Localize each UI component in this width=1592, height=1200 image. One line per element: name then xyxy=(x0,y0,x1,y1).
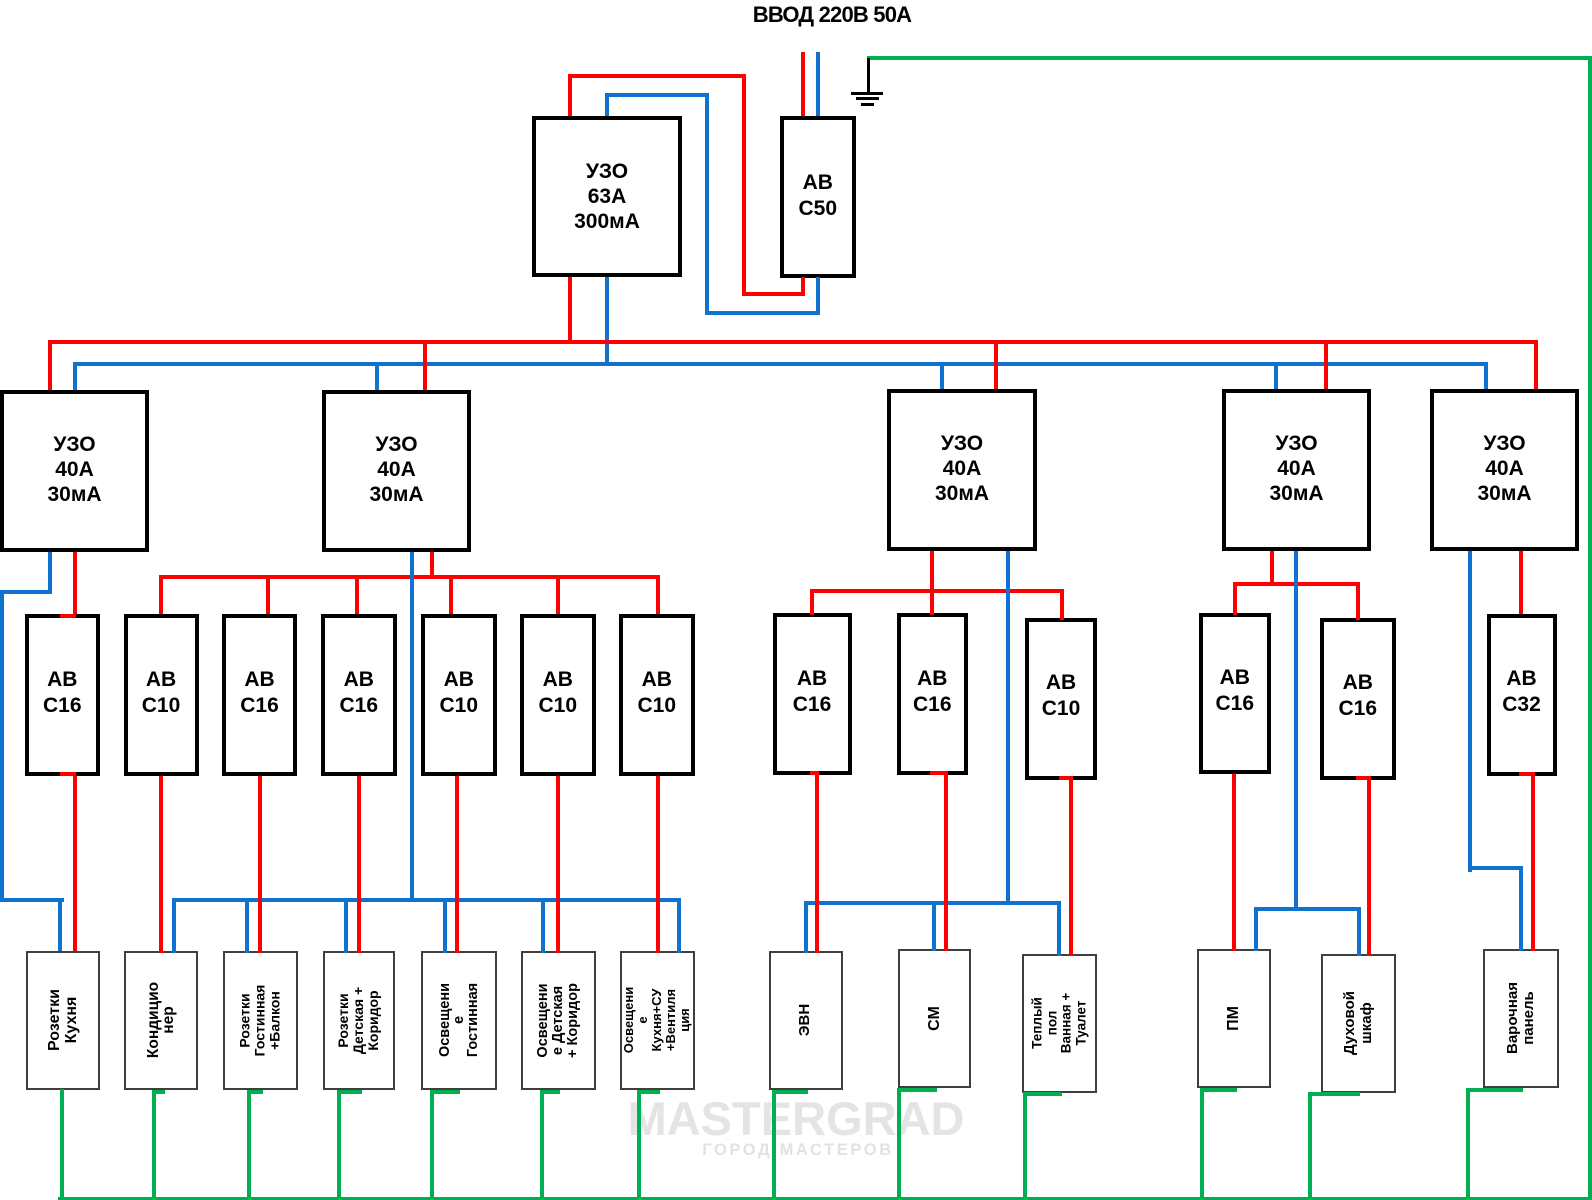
wire N drop to load10 xyxy=(0,0,1,1)
load2 Кондиционер xyxy=(124,951,198,1090)
wire PE bottom bus (green) xyxy=(0,0,1,1)
wire drop to АВ11 xyxy=(0,0,1,1)
wire АВ8 out L to load8 xyxy=(0,0,1,1)
load5 Освещение Гостинная xyxy=(421,951,497,1090)
wire drop to АВ9 xyxy=(0,0,1,1)
wire PE load5 xyxy=(0,0,1,1)
wire PE load12 xyxy=(0,0,1,1)
wire group3 phase distribution bus (red) xyxy=(0,0,1,1)
load1 Розетки Кухня xyxy=(26,951,101,1090)
wire drop to АВ12 xyxy=(0,0,1,1)
wire УЗО 63А out N to blue bus xyxy=(0,0,1,1)
wire УЗО4 N feed to group4 blue bus xyxy=(0,0,1,1)
wire L from АВ С50 out to УЗО 63А in (red) xyxy=(0,0,1,1)
load8 ЭВН xyxy=(769,951,843,1090)
wire drop N to УЗО5 xyxy=(0,0,1,1)
breaker АВ11 C16 xyxy=(1199,613,1272,774)
wire УЗО1 L to АВ1 xyxy=(0,0,1,1)
wire N drop to load2 xyxy=(0,0,1,1)
wire PE load3 xyxy=(0,0,1,1)
wire drop L to УЗО2 xyxy=(0,0,1,1)
breaker АВ13 C32 xyxy=(1487,614,1557,776)
load6 Освещение Детская + Коридор xyxy=(521,951,596,1090)
breaker АВ9 C16 xyxy=(897,613,968,775)
breaker АВ5 C10 xyxy=(421,614,497,776)
wire АВ10 out L to load10 xyxy=(0,0,1,1)
wire N drop to load4 xyxy=(0,0,1,1)
wire PE load4 xyxy=(0,0,1,1)
wire drop to АВ6 xyxy=(0,0,1,1)
wire УЗО1 N to load1 xyxy=(0,0,1,1)
wire АВ7 out L to load7 xyxy=(0,0,1,1)
wire УЗО3 N feed to group3 blue bus xyxy=(0,0,1,1)
breaker АВ4 C16 xyxy=(321,614,397,776)
wire group2 phase distribution bus (red) xyxy=(0,0,1,1)
wire main neutral bus (blue) xyxy=(0,0,1,1)
RCD УЗО5 40А 30мА xyxy=(1430,389,1579,551)
wire PE load1 xyxy=(0,0,1,1)
breaker АВ10 C10 xyxy=(1025,618,1097,780)
wire input neutral N (blue) xyxy=(0,0,1,1)
watermark MASTERGRAD xyxy=(0,1092,1592,1146)
wire УЗО 63А out L to red bus xyxy=(0,0,1,1)
wire PE load8 xyxy=(0,0,1,1)
wire N drop to load7 xyxy=(0,0,1,1)
wire group4 phase distribution bus (red) xyxy=(0,0,1,1)
wire drop N to УЗО3 xyxy=(0,0,1,1)
wire N drop to load9 xyxy=(0,0,1,1)
breaker АВ2 C10 xyxy=(124,614,199,776)
RCD УЗО 63А 300мА xyxy=(532,116,682,277)
RCD УЗО4 40А 30мА xyxy=(1222,389,1371,551)
RCD УЗО3 40А 30мА xyxy=(887,389,1037,551)
wire PE load2 xyxy=(0,0,1,1)
wire N from АВ С50 out to УЗО 63А in (blue) xyxy=(0,0,1,1)
wire PE load7 xyxy=(0,0,1,1)
load9 СМ xyxy=(898,949,972,1088)
RCD УЗО1 40А 30мА xyxy=(0,390,149,552)
wire АВ11 out L to load11 xyxy=(0,0,1,1)
wire УЗО2 N feed to group2 blue bus xyxy=(0,0,1,1)
wire group2 neutral distribution bus (blue) xyxy=(0,0,1,1)
wire drop N to УЗО2 xyxy=(0,0,1,1)
ground symbol xyxy=(0,0,1,1)
wire PE load10 xyxy=(0,0,1,1)
breaker АВ7 C10 xyxy=(619,614,695,776)
wire drop to АВ8 xyxy=(0,0,1,1)
wire АВ5 out L to load5 xyxy=(0,0,1,1)
wire УЗО2 L feed to group2 red bus xyxy=(0,0,1,1)
load3 Розетки Гостинная +Балкон xyxy=(223,951,298,1090)
wire drop N to УЗО1 xyxy=(0,0,1,1)
RCD УЗО2 40А 30мА xyxy=(322,390,471,552)
wire drop to АВ5 xyxy=(0,0,1,1)
wire drop to АВ7 xyxy=(0,0,1,1)
wire group4 neutral distribution bus (blue) xyxy=(0,0,1,1)
load12 Духовой шкаф xyxy=(1321,954,1396,1093)
load10 Теплый пол Ванная + Туалет xyxy=(1022,954,1097,1093)
wire drop L to УЗО1 xyxy=(0,0,1,1)
breaker АВ1 C16 xyxy=(25,614,101,776)
wire drop to АВ10 xyxy=(0,0,1,1)
watermark ГОРОД МАСТЕРОВ xyxy=(2,1140,1592,1160)
breaker АВ6 C10 xyxy=(520,614,596,776)
wire PE load9 xyxy=(0,0,1,1)
net label ВВОД 220В 50А xyxy=(632,0,1032,29)
wire УЗО5 L to АВ13 xyxy=(0,0,1,1)
wire PE load13 xyxy=(0,0,1,1)
breaker АВ3 C16 xyxy=(222,614,297,776)
wire drop L to УЗО4 xyxy=(0,0,1,1)
wire АВ13 out L to load13 xyxy=(0,0,1,1)
wire N drop to load5 xyxy=(0,0,1,1)
load4 Розетки Детская + Коридор xyxy=(323,951,395,1090)
wire drop L to УЗО3 xyxy=(0,0,1,1)
wire PE load11 xyxy=(0,0,1,1)
wire УЗО3 L feed to group3 red bus xyxy=(0,0,1,1)
wire N drop to load6 xyxy=(0,0,1,1)
wire main phase bus (red) xyxy=(0,0,1,1)
wire АВ3 out L to load3 xyxy=(0,0,1,1)
wire АВ12 out L to load12 xyxy=(0,0,1,1)
wire АВ9 out L to load9 xyxy=(0,0,1,1)
wire drop N to УЗО4 xyxy=(0,0,1,1)
load7 Освещение Кухня+СУ+Вентиляция xyxy=(620,951,695,1090)
wire PE ground bus (green, top + right edge) xyxy=(0,0,1,1)
wire АВ2 out L to load2 xyxy=(0,0,1,1)
wire PE load6 xyxy=(0,0,1,1)
wire АВ6 out L to load6 xyxy=(0,0,1,1)
breaker АВ12 C16 xyxy=(1320,618,1396,780)
breaker AB C50 xyxy=(780,116,856,278)
wire drop to АВ2 xyxy=(0,0,1,1)
wire АВ4 out L to load4 xyxy=(0,0,1,1)
wire N drop to load12 xyxy=(0,0,1,1)
wire УЗО4 L feed to group4 red bus xyxy=(0,0,1,1)
load11 ПМ xyxy=(1197,949,1271,1088)
wire drop to АВ4 xyxy=(0,0,1,1)
wire N drop to load3 xyxy=(0,0,1,1)
load13 Варочная панель xyxy=(1483,949,1559,1088)
wire АВ1 out L to load1 xyxy=(0,0,1,1)
wire N drop to load11 xyxy=(0,0,1,1)
wire drop L to УЗО5 xyxy=(0,0,1,1)
wire N drop to load8 xyxy=(0,0,1,1)
wire УЗО5 N to load13 xyxy=(0,0,1,1)
wire group3 neutral distribution bus (blue) xyxy=(0,0,1,1)
wire drop to АВ3 xyxy=(0,0,1,1)
breaker АВ8 C16 xyxy=(773,613,852,775)
wire input phase L (red) xyxy=(0,0,1,1)
